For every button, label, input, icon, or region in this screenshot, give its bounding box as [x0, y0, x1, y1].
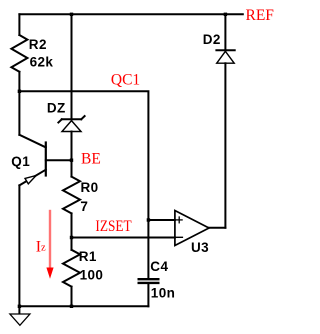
svg-text:100: 100	[80, 268, 104, 283]
svg-text:D2: D2	[203, 32, 221, 47]
svg-text:U3: U3	[191, 240, 209, 255]
svg-text:z: z	[41, 243, 46, 254]
svg-text:R2: R2	[29, 37, 47, 52]
svg-text:7: 7	[80, 199, 88, 214]
svg-text:C4: C4	[150, 259, 168, 274]
svg-text:R0: R0	[81, 180, 99, 195]
svg-text:QC1: QC1	[111, 72, 140, 89]
svg-text:10n: 10n	[151, 286, 175, 301]
svg-text:R1: R1	[79, 249, 97, 264]
svg-text:DZ: DZ	[47, 101, 66, 116]
svg-text:62k: 62k	[30, 54, 54, 69]
svg-text:IZSET: IZSET	[95, 218, 132, 235]
svg-text:BE: BE	[81, 150, 101, 167]
svg-text:REF: REF	[246, 7, 275, 24]
svg-text:Q1: Q1	[11, 154, 30, 169]
